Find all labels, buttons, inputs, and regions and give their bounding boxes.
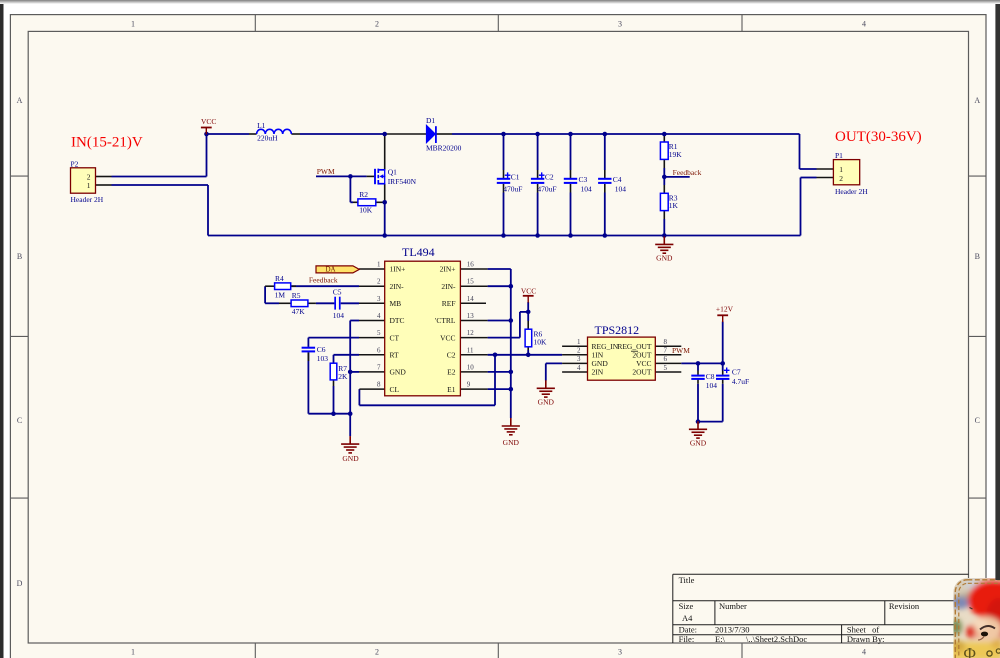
svg-text:2OUT: 2OUT [632,368,652,377]
svg-text:14: 14 [467,295,475,303]
svg-text:C2: C2 [545,172,554,181]
svg-text:GND: GND [342,454,359,463]
svg-text:DTC: DTC [390,316,405,325]
svg-text:GND: GND [690,439,707,448]
svg-text:104: 104 [706,381,718,390]
svg-text:MBR20200: MBR20200 [426,144,462,153]
svg-text:GND: GND [656,254,673,263]
svg-text:VCC: VCC [440,333,455,342]
svg-text:3: 3 [618,19,622,28]
svg-text:10: 10 [467,363,475,371]
svg-text:15: 15 [467,278,475,286]
svg-text:2: 2 [377,278,381,286]
svg-text:PWM: PWM [317,167,335,176]
svg-text:13: 13 [467,312,475,320]
svg-text:Header 2H: Header 2H [71,195,104,204]
svg-text:5: 5 [377,329,381,337]
svg-text:4: 4 [862,648,866,657]
svg-text:2: 2 [375,648,379,657]
svg-text:C7: C7 [732,368,741,377]
svg-text:1: 1 [377,261,381,269]
svg-text:E1: E1 [447,385,456,394]
svg-text:OUT(30-36V): OUT(30-36V) [835,129,922,145]
svg-text:3: 3 [377,295,381,303]
svg-text:\..\Sheet2.SchDoc: \..\Sheet2.SchDoc [746,634,807,644]
svg-text:File:: File: [679,634,695,644]
svg-text:DA: DA [325,266,335,274]
svg-text:GND: GND [390,368,407,377]
svg-text:+12V: +12V [716,304,734,313]
svg-text:C: C [975,416,980,425]
svg-text:1: 1 [131,648,135,657]
svg-text:Revision: Revision [889,601,920,611]
svg-text:104: 104 [333,311,345,320]
svg-text:VCC: VCC [521,286,536,295]
svg-text:A: A [17,96,23,105]
svg-text:7: 7 [664,347,668,355]
svg-text:REF: REF [442,299,456,308]
svg-text:D: D [17,579,23,588]
svg-text:C4: C4 [613,175,622,184]
svg-text:Number: Number [719,601,747,611]
svg-text:MB: MB [390,299,402,308]
svg-text:1K: 1K [669,201,679,210]
svg-text:2IN: 2IN [592,368,604,377]
svg-text:6: 6 [664,355,668,363]
svg-text:CT: CT [390,333,400,342]
svg-text:A: A [974,96,980,105]
svg-text:1: 1 [577,338,581,346]
svg-text:TL494: TL494 [402,245,435,259]
svg-text:R5: R5 [292,291,301,300]
svg-text:E2: E2 [447,368,456,377]
svg-text:B: B [975,252,980,261]
svg-text:1: 1 [87,181,91,190]
svg-text:1M: 1M [275,291,286,300]
svg-text:Header 2H: Header 2H [835,187,868,196]
svg-text:104: 104 [581,185,593,194]
svg-text:10K: 10K [359,206,373,215]
svg-text:7: 7 [377,363,381,371]
svg-text:9: 9 [467,381,471,389]
svg-text:16: 16 [467,261,475,269]
svg-text:2IN-: 2IN- [390,282,405,291]
svg-text:470uF: 470uF [503,184,522,193]
svg-text:3: 3 [577,355,581,363]
svg-text:VCC: VCC [201,117,216,126]
svg-text:GND: GND [503,438,520,447]
svg-text:Feedback: Feedback [309,275,338,284]
svg-text:104: 104 [615,185,627,194]
svg-text:3: 3 [618,648,622,657]
svg-text:Title: Title [679,575,695,585]
svg-text:PWM: PWM [672,346,690,355]
svg-text:D1: D1 [426,116,435,125]
svg-text:C5: C5 [333,287,342,296]
svg-text:2IN+: 2IN+ [440,265,456,274]
svg-text:220uH: 220uH [257,134,278,143]
svg-text:C3: C3 [579,175,588,184]
svg-text:11: 11 [467,346,474,354]
svg-text:R4: R4 [275,274,284,283]
svg-text:47K: 47K [292,307,306,316]
svg-text:B: B [17,252,22,261]
svg-text:RT: RT [390,351,400,360]
svg-text:19K: 19K [669,150,683,159]
svg-text:4: 4 [862,19,866,28]
svg-text:TPS2812: TPS2812 [595,323,640,337]
svg-text:2: 2 [375,19,379,28]
svg-text:6: 6 [377,346,381,354]
svg-text:C2: C2 [447,351,456,360]
svg-text:1: 1 [131,19,135,28]
svg-text:Q1: Q1 [388,167,397,176]
svg-text:Feedback: Feedback [673,168,702,177]
svg-text:5: 5 [664,364,668,372]
svg-text:Drawn By:: Drawn By: [847,634,885,644]
svg-text:Φ: Φ [964,644,976,658]
svg-text:A4: A4 [682,613,693,623]
svg-text:2IN-: 2IN- [441,282,456,291]
svg-text:C8: C8 [706,372,715,381]
svg-text:2K: 2K [338,372,348,381]
svg-text:CL: CL [390,385,400,394]
svg-text:Size: Size [679,601,694,611]
svg-text:IN(15-21)V: IN(15-21)V [71,135,143,151]
svg-text:8: 8 [664,338,668,346]
svg-text:4.7uF: 4.7uF [732,377,749,386]
svg-text:C1: C1 [511,172,520,181]
svg-text:1IN+: 1IN+ [390,265,406,274]
svg-text:4: 4 [577,364,581,372]
svg-text:'CTRL: 'CTRL [435,316,456,325]
svg-text:470uF: 470uF [537,184,556,193]
svg-text:2: 2 [839,174,843,183]
svg-text:12: 12 [467,329,475,337]
svg-text:L1: L1 [257,121,266,130]
svg-text:2: 2 [87,173,91,182]
svg-text:8: 8 [377,381,381,389]
svg-text:P2: P2 [71,159,79,168]
svg-text:E:\: E:\ [715,634,726,644]
svg-text:P1: P1 [835,151,843,160]
svg-text:C6: C6 [317,345,326,354]
svg-text:2: 2 [577,347,581,355]
svg-text:R2: R2 [359,190,368,199]
svg-text:10K: 10K [534,338,548,347]
svg-text:103: 103 [317,354,329,363]
svg-text:IRF540N: IRF540N [388,177,417,186]
svg-text:4: 4 [377,312,381,320]
svg-text:GND: GND [538,398,555,407]
svg-text:C: C [17,416,22,425]
